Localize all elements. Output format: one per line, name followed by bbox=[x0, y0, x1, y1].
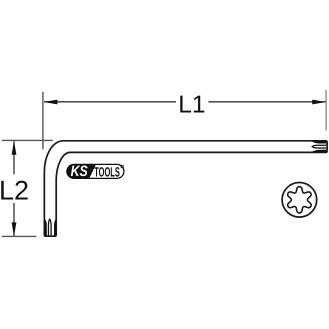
bottom tip flute middle ridge bbox=[48, 219, 51, 236]
right tip flute bottom wedge bbox=[312, 150, 327, 152]
logo registered mark bbox=[121, 165, 124, 168]
logo stadium outline bbox=[67, 164, 124, 178]
L1 dimension line left segment bbox=[44, 101, 176, 103]
svg-text:TOOLS: TOOLS bbox=[94, 164, 120, 179]
L2 arrow down bbox=[12, 222, 17, 236]
L2 dimension line upper segment bbox=[13, 141, 15, 174]
right tip flute middle ridge bbox=[312, 145, 326, 148]
torx detail circle bbox=[282, 183, 317, 218]
bottom tip flute right wedge bbox=[54, 219, 56, 236]
L1 arrow left bbox=[44, 100, 58, 105]
L2 extension line top bbox=[2, 139, 53, 141]
bottom tip flute left wedge bbox=[45, 219, 47, 236]
L1 extension line left bbox=[42, 92, 44, 150]
logo KS black field bbox=[67, 164, 96, 178]
L2 dimension line lower segment bbox=[13, 203, 15, 236]
svg-text:KS: KS bbox=[71, 163, 88, 180]
L1 arrow right bbox=[312, 100, 326, 105]
L1 dimension line right segment bbox=[209, 101, 326, 103]
key body outline bbox=[44, 141, 327, 236]
right tip flute top wedge bbox=[311, 141, 326, 143]
L1 extension line right bbox=[325, 90, 327, 131]
svg-text:L1: L1 bbox=[178, 91, 205, 118]
L2 extension line bottom bbox=[2, 235, 37, 237]
torx star profile bbox=[288, 187, 312, 213]
svg-text:L2: L2 bbox=[0, 175, 29, 205]
L2 arrow up bbox=[12, 141, 17, 155]
